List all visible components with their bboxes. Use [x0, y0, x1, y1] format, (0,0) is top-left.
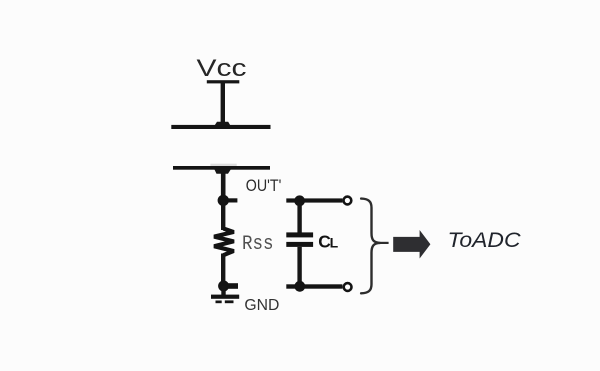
capacitor bottom junction dot	[294, 281, 305, 292]
terminal circle top	[344, 197, 352, 205]
gray smudge above bottom plate	[210, 164, 236, 167]
capacitor CL bottom plate	[286, 242, 313, 247]
node A junction dot	[218, 195, 229, 206]
capacitor top junction dot	[294, 195, 305, 206]
wire stub right of node A	[223, 198, 237, 202]
joint blob on top plate	[214, 122, 230, 126]
resistor Rss zigzag	[214, 229, 233, 256]
curly brace	[361, 199, 380, 294]
wire node A to resistor	[221, 200, 225, 230]
ground symbol dash right	[225, 300, 234, 303]
svg-text:OU'T': OU'T'	[246, 177, 281, 195]
wire node to ground symbol	[221, 286, 225, 295]
top plate bar	[171, 125, 270, 129]
ground symbol dash left	[216, 301, 222, 304]
brace point tick	[380, 242, 389, 244]
bottom plate bar	[173, 166, 270, 170]
wire capacitor bottom node to terminal	[299, 284, 342, 288]
terminal circle bottom	[344, 283, 352, 291]
svg-text:Rss: Rss	[242, 233, 274, 256]
wire plate to OUT node	[221, 169, 226, 200]
wire stub right of ground node	[223, 283, 238, 289]
wire stub left of capacitor bottom node	[286, 284, 299, 288]
svg-text:L: L	[330, 235, 339, 251]
capacitor CL top plate	[286, 232, 313, 237]
ground node junction dot	[218, 281, 229, 292]
svg-text:GND: GND	[244, 297, 279, 314]
wire capacitor top lead	[297, 202, 301, 233]
wire stub left of capacitor top node	[286, 198, 299, 202]
wire capacitor bottom lead	[297, 247, 301, 285]
arrow to ADC	[393, 230, 430, 259]
svg-text:Vcc: Vcc	[197, 55, 247, 82]
wire Vcc vertical	[221, 81, 225, 124]
joint blob under bottom plate	[214, 169, 230, 173]
Vcc supply T-bar	[207, 80, 240, 83]
wire resistor to ground node	[221, 254, 225, 287]
ground symbol bar	[211, 295, 239, 299]
wire capacitor top node to terminal	[299, 198, 342, 202]
svg-text:ToADC: ToADC	[448, 229, 522, 252]
